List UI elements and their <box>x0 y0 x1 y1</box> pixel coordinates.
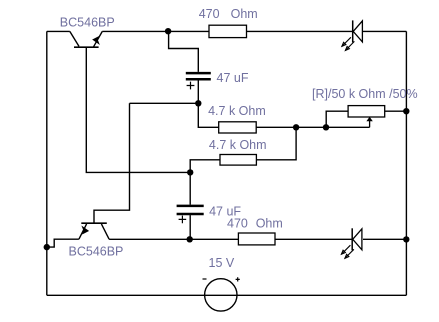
potentiometer R5 body <box>348 106 385 117</box>
wire R3 right to node C <box>256 126 296 128</box>
resistor R2 470 Ohm bottom <box>238 233 275 245</box>
potentiometer R5 wiper arrow <box>366 117 372 128</box>
svg-text:BC546BP: BC546BP <box>69 244 124 258</box>
wire pot right lead <box>385 110 407 112</box>
wire LED1 to right rail <box>362 30 406 32</box>
wire node C down to R4 right <box>256 127 296 160</box>
wire C2 bottom to node E <box>189 215 191 239</box>
junction emitter left rail <box>44 244 50 250</box>
wire pot left lead <box>326 111 348 127</box>
LED D2 bottom <box>341 228 362 258</box>
wire Q1 base run <box>86 48 190 173</box>
junction pot left <box>323 124 329 130</box>
resistor R3 4.7k <box>219 122 257 133</box>
wire Q2 emitter to left rail <box>47 239 79 247</box>
wire top run to R1 <box>102 30 209 32</box>
svg-text:47 uF: 47 uF <box>217 71 249 85</box>
wire node B to R3 left <box>198 103 218 127</box>
svg-text:Ohm: Ohm <box>231 7 258 21</box>
svg-text:470: 470 <box>199 7 220 21</box>
wire R2 to LED2 <box>275 238 352 240</box>
LED D1 top <box>342 20 363 50</box>
wire node B left <box>130 102 199 104</box>
wire node D to C2 top <box>189 172 191 204</box>
transistor Q1 <box>70 31 103 47</box>
wire bottom rail <box>47 294 407 296</box>
svg-text:Ohm: Ohm <box>256 217 283 231</box>
svg-text:4.7 k Ohm: 4.7 k Ohm <box>209 138 267 152</box>
junction node B <box>195 100 201 106</box>
svg-text:[R]/50 k Ohm /50%: [R]/50 k Ohm /50% <box>312 87 418 101</box>
capacitor C1 47uF <box>186 73 211 89</box>
wire node A branch to C1 top <box>169 31 199 72</box>
resistor R4 4.7k <box>220 155 256 166</box>
wire C1 bottom to node B <box>197 80 199 103</box>
junction node C <box>293 124 299 130</box>
svg-text:4.7 k Ohm: 4.7 k Ohm <box>208 104 266 118</box>
wire R4 left to node D <box>190 160 220 173</box>
capacitor C2 47uF <box>177 206 204 223</box>
svg-text:470: 470 <box>227 217 248 231</box>
wire Q2 collector row <box>109 238 238 240</box>
wire node C to pot wiper <box>296 126 370 128</box>
wire left rail <box>46 31 48 295</box>
wire right rail <box>405 31 407 295</box>
junction node E <box>187 236 193 242</box>
voltage source V1 15V <box>203 277 240 311</box>
junction node D <box>187 169 193 175</box>
svg-text:15 V: 15 V <box>209 256 235 270</box>
wire top-left segment <box>47 30 70 32</box>
junction dot top wire <box>165 28 171 34</box>
svg-text:BC546BP: BC546BP <box>60 15 115 29</box>
junction LED2 rail <box>403 236 409 242</box>
junction pot right rail <box>403 108 409 114</box>
wire Q2 base run <box>94 103 130 223</box>
transistor Q2 <box>79 223 109 239</box>
resistor R1 470 Ohm top <box>209 25 247 37</box>
wire LED2 to right rail <box>363 238 406 240</box>
wire R1 to LED1 <box>247 30 353 32</box>
